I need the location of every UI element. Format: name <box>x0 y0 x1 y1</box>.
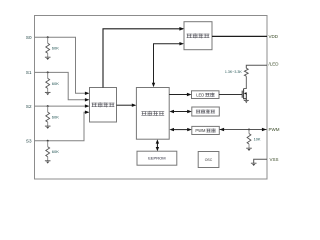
chip outline border <box>35 16 268 180</box>
svg-text:1.3K~3.3K: 1.3K~3.3K <box>225 70 242 74</box>
wire /LED pin to resistor <box>246 65 267 68</box>
node junction on PWM wire <box>248 129 250 131</box>
block U-eeprom EEPROM <box>137 151 177 165</box>
svg-text:60K: 60K <box>52 81 59 86</box>
block U-osc-circ 振荡电路 <box>192 107 220 116</box>
ground (PWM pulldown) <box>246 148 252 151</box>
block U-powermgmt 电源管理 <box>184 22 212 50</box>
ground (S3 pulldown) <box>45 161 51 164</box>
svg-text:VSS: VSS <box>270 157 279 162</box>
node junction on S1 wire <box>47 71 49 73</box>
block U-osc OSC <box>198 152 219 168</box>
wire VSS pin to ground <box>254 159 267 163</box>
svg-text:60K: 60K <box>52 149 59 154</box>
svg-text:S2: S2 <box>26 104 32 109</box>
wire key-detect to power-mgmt (wake) <box>103 29 183 88</box>
wire S2 to key-detect input <box>35 105 86 107</box>
wire control to LED-drive <box>169 94 187 96</box>
wire key-detect to control <box>117 104 133 106</box>
svg-text:OSC: OSC <box>205 158 213 162</box>
ground (S0 pulldown) <box>45 57 51 60</box>
svg-text:PWM: PWM <box>195 128 206 133</box>
node junction on S3 wire <box>47 140 49 142</box>
wire S0 to key-detect input <box>35 37 86 93</box>
svg-text:S3: S3 <box>26 139 32 144</box>
wire control / osc-circ bidirectional <box>174 111 188 113</box>
wire power-mgmt to VDD pin <box>212 35 267 37</box>
resistor R-S2 60K <box>47 106 49 112</box>
resistor R-pwm 10K <box>248 130 250 134</box>
svg-text:10K: 10K <box>254 137 261 142</box>
svg-text:S0: S0 <box>26 35 32 40</box>
svg-text:EEPROM: EEPROM <box>148 156 165 161</box>
wire pwm-block to PWM pin <box>220 129 267 131</box>
ground (mosfet source) <box>244 100 249 103</box>
block U-control 控制电路 <box>136 88 169 140</box>
block U-leddrv LED驱动 <box>192 91 220 99</box>
resistor R-led 1.3K~3.3K <box>244 68 248 76</box>
wire resistor to mosfet drain <box>244 76 247 88</box>
svg-text:VDD: VDD <box>269 34 279 39</box>
resistor R-S1 60K <box>47 72 49 78</box>
wire power-mgmt / control link <box>154 44 180 83</box>
svg-text:60K: 60K <box>52 46 59 51</box>
transistor Q1 NMOS <box>219 89 246 101</box>
ground (VSS) <box>251 163 257 166</box>
wire S3 to key-detect input <box>35 112 86 141</box>
block U-pwm PWM接收 <box>192 126 220 134</box>
svg-text:60K: 60K <box>52 115 59 120</box>
svg-text:S1: S1 <box>26 70 32 75</box>
wire S1 to key-detect input <box>35 72 86 99</box>
resistor R-S3 60K <box>47 141 49 147</box>
node junction on S0 wire <box>47 36 49 38</box>
svg-text:/LED: /LED <box>269 61 280 66</box>
ground (S1 pulldown) <box>45 92 51 95</box>
wire control / eeprom bidirectional <box>156 143 158 148</box>
svg-text:LED: LED <box>196 92 204 97</box>
block U-keydetect 按键检测 <box>90 88 117 123</box>
svg-text:PWM: PWM <box>269 127 280 132</box>
node junction on S2 wire <box>47 105 49 107</box>
ground (S2 pulldown) <box>45 126 51 129</box>
wire control / pwm-block bidirectional <box>174 129 188 131</box>
resistor R-S0 60K <box>47 37 49 43</box>
